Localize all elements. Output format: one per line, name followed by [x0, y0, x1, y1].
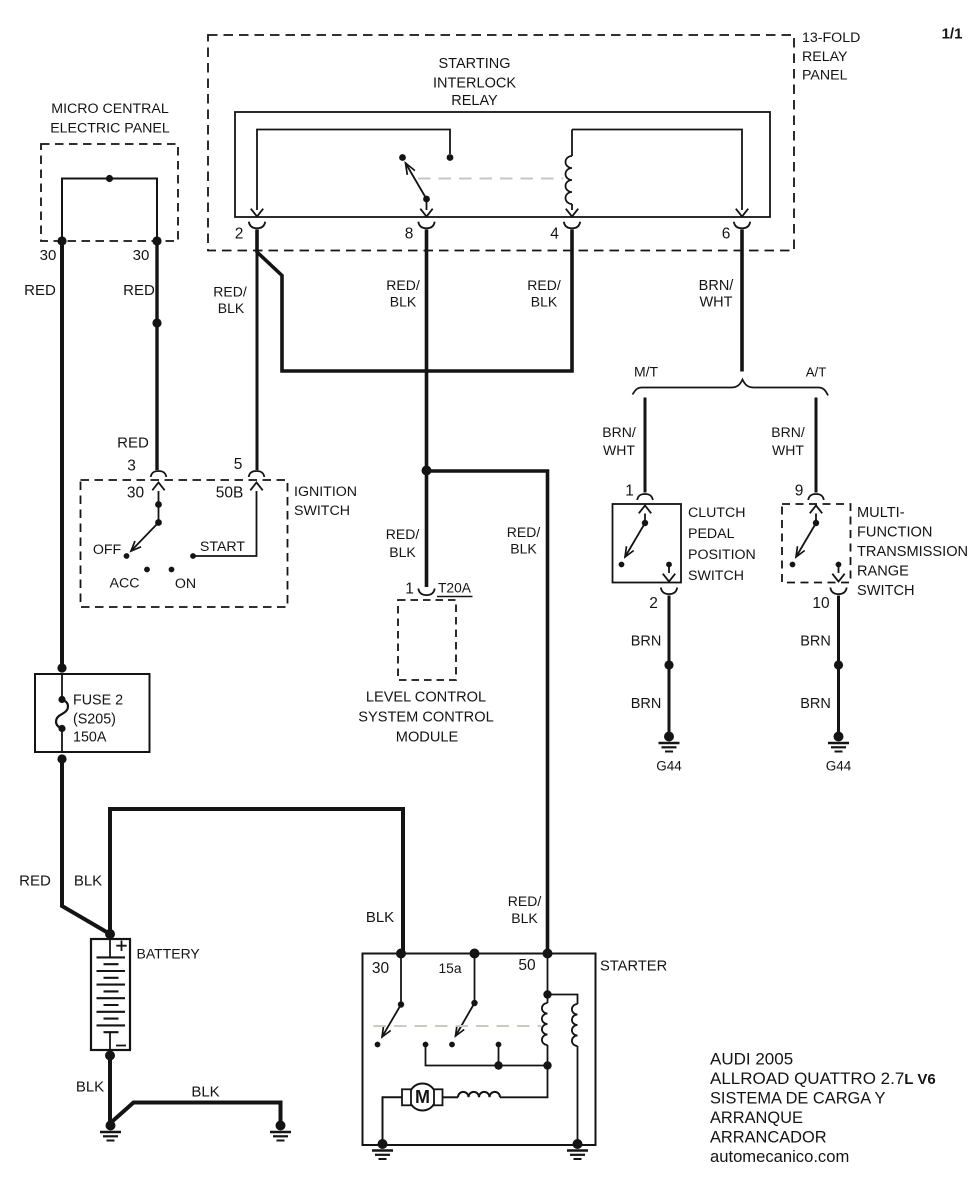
starter motor left lead	[383, 1097, 402, 1144]
svg-text:9: 9	[795, 483, 804, 500]
svg-text:T20A: T20A	[438, 581, 472, 596]
svg-text:PANEL: PANEL	[802, 68, 848, 84]
fuse contact bottom	[58, 725, 65, 732]
junction terminal 30 left	[57, 236, 66, 245]
junction on clutch BRN wire	[664, 660, 673, 669]
ignition OFF contact	[124, 553, 130, 559]
svg-text:WHT: WHT	[603, 442, 635, 458]
svg-text:BLK: BLK	[389, 544, 416, 560]
svg-text:TRANSMISSION: TRANSMISSION	[857, 544, 968, 560]
ignition pin 3 connector	[151, 471, 167, 477]
wire BLK branch to second ground	[111, 1103, 281, 1126]
wire BRN/WHT to clutch switch	[644, 398, 647, 493]
svg-text:BATTERY: BATTERY	[137, 946, 201, 962]
starter switch 1 arm	[382, 1005, 401, 1038]
starter switch 2 contact	[449, 1042, 455, 1048]
svg-text:ELECTRIC PANEL: ELECTRIC PANEL	[50, 121, 170, 137]
starter junction b	[494, 1061, 502, 1069]
starting interlock relay inner box	[235, 112, 770, 217]
svg-text:BRN/: BRN/	[602, 424, 636, 440]
svg-text:FUNCTION: FUNCTION	[857, 525, 932, 541]
clutch contact open	[619, 562, 625, 568]
fuse lead top	[61, 674, 63, 700]
fuse lead bottom	[61, 729, 63, 753]
relay switch arm	[406, 163, 427, 199]
micro central electric panel dashed box	[41, 144, 178, 241]
wire BRN range to ground	[837, 596, 840, 734]
starter switch 1 stem	[400, 954, 402, 1005]
svg-text:1: 1	[625, 483, 634, 500]
junction terminal 30 right	[152, 236, 161, 245]
starter terminal 30 junction	[396, 949, 406, 959]
junction below fuse	[57, 754, 66, 763]
svg-text:2: 2	[649, 595, 658, 612]
svg-text:G44: G44	[656, 759, 682, 774]
wire RED fuse to battery	[62, 757, 110, 934]
svg-text:1/1: 1/1	[942, 26, 963, 43]
starter box	[363, 954, 596, 1146]
clutch pin 1 connector	[637, 494, 653, 500]
starter pull-in coil lead bottom	[547, 1045, 549, 1066]
relay pin 6 arrow	[736, 209, 748, 217]
starter junction 50 coils	[543, 990, 551, 998]
svg-text:POSITION: POSITION	[688, 547, 756, 563]
junction on panel bus	[106, 175, 113, 182]
relay pin 2 connector	[249, 222, 265, 229]
starter ground left	[372, 1139, 393, 1159]
svg-text:AUDI 2005: AUDI 2005	[710, 1050, 793, 1069]
relay arm arrowhead	[406, 163, 415, 175]
junction on pin 8 wire	[422, 466, 432, 476]
svg-text:RELAY: RELAY	[802, 49, 848, 65]
svg-text:ARRANQUE: ARRANQUE	[710, 1109, 803, 1127]
svg-text:STARTER: STARTER	[600, 959, 667, 975]
relay internal wire pin2 to fixed contact	[257, 130, 450, 211]
wire RED from panel to fuse	[60, 239, 64, 668]
starter switch 1 contact	[375, 1042, 381, 1048]
wire inside micro panel (bus)	[62, 179, 157, 242]
clutch pin 1 stem	[644, 514, 646, 524]
svg-text:BRN: BRN	[631, 634, 662, 650]
svg-text:SWITCH: SWITCH	[857, 583, 915, 599]
svg-text:LEVEL CONTROL: LEVEL CONTROL	[366, 690, 486, 706]
relay pin 6 connector	[734, 222, 750, 229]
ignition ON contact	[169, 567, 175, 573]
svg-text:SWITCH: SWITCH	[688, 568, 744, 584]
battery positive junction	[105, 929, 115, 939]
starter motor M	[402, 1084, 443, 1111]
fuse contact top	[58, 696, 65, 703]
ground G44 right	[828, 732, 849, 752]
svg-text:BRN: BRN	[800, 696, 831, 712]
svg-text:G44: G44	[826, 759, 852, 774]
battery minus sign	[116, 1045, 126, 1047]
range contact open	[790, 562, 796, 568]
junction on RED wire	[152, 318, 161, 327]
svg-text:3: 3	[127, 458, 136, 475]
battery negative junction	[105, 1051, 115, 1061]
clutch pin 2 arrow	[663, 574, 675, 582]
svg-text:BLK: BLK	[510, 541, 537, 557]
relay pin 4 connector	[564, 222, 580, 229]
svg-text:8: 8	[405, 226, 414, 243]
svg-text:MODULE: MODULE	[396, 730, 459, 746]
svg-text:SYSTEM CONTROL: SYSTEM CONTROL	[358, 710, 493, 726]
ground at battery	[100, 1121, 121, 1141]
starter switch 2 arm	[456, 1003, 475, 1036]
starter internal wire contacts to coil junction	[426, 1045, 548, 1066]
wire RED/BLK pin2 branch to ignition 50B	[256, 252, 259, 470]
svg-text:RED: RED	[123, 282, 155, 299]
svg-text:RED/: RED/	[508, 893, 542, 909]
fuse 2 box	[35, 674, 150, 752]
wire RED/BLK pin2-pin4 loop	[257, 230, 572, 372]
connector T20A	[418, 589, 434, 596]
starter terminal 50 junction	[543, 949, 553, 959]
level control system control module dashed box	[398, 600, 456, 680]
wire BLK battery to ground	[108, 1056, 112, 1126]
svg-text:M: M	[415, 1087, 430, 1107]
svg-text:13-FOLD: 13-FOLD	[802, 30, 860, 46]
starter ground right	[567, 1139, 588, 1159]
svg-text:RED/: RED/	[386, 277, 420, 293]
svg-text:RED: RED	[19, 873, 51, 890]
svg-text:IGNITION: IGNITION	[294, 484, 357, 500]
range arm arrowhead	[796, 546, 805, 557]
relay armature pivot	[423, 196, 430, 203]
svg-text:MULTI-: MULTI-	[857, 505, 905, 521]
M/T A/T split brace	[633, 380, 829, 396]
svg-text:RANGE: RANGE	[857, 564, 909, 580]
starter hold-in coil	[572, 1004, 578, 1046]
ground G44 left	[659, 732, 680, 752]
fuse element S-curve	[56, 700, 68, 729]
starter switch 2 arrowhead	[456, 1025, 465, 1036]
svg-text:4: 4	[550, 226, 559, 243]
13-fold relay panel dashed box	[208, 35, 794, 251]
relay pin 8 connector	[418, 222, 434, 229]
starter motor right lead	[443, 1096, 459, 1098]
svg-text:MICRO CENTRAL: MICRO CENTRAL	[51, 101, 169, 117]
junction above fuse	[57, 663, 66, 672]
ignition arm arrowhead	[131, 541, 141, 551]
svg-text:RELAY: RELAY	[451, 93, 498, 109]
starter actuation dashed link	[374, 1025, 542, 1027]
svg-text:BLK: BLK	[390, 294, 417, 310]
starter armature coil to junction	[500, 1067, 548, 1097]
svg-text:BLK: BLK	[191, 1084, 219, 1101]
svg-text:ALLROAD QUATTRO 2.7L V6: ALLROAD QUATTRO 2.7L V6	[710, 1069, 936, 1088]
svg-text:CLUTCH: CLUTCH	[688, 505, 746, 521]
svg-text:M/T: M/T	[634, 364, 659, 380]
svg-text:SISTEMA DE CARGA Y: SISTEMA DE CARGA Y	[710, 1090, 886, 1108]
wire BRN clutch to ground	[668, 596, 671, 734]
svg-text:30: 30	[372, 960, 390, 977]
svg-text:SWITCH: SWITCH	[294, 503, 350, 519]
svg-text:BLK: BLK	[511, 910, 538, 926]
relay coil	[566, 156, 573, 204]
range pin 10 stem	[838, 565, 840, 574]
multi-function transmission range switch dashed box	[782, 504, 851, 583]
ground second	[270, 1121, 291, 1141]
ignition pin 5 connector	[249, 471, 265, 477]
starter switch 1 pivot	[398, 1001, 404, 1007]
svg-text:ACC: ACC	[110, 576, 140, 592]
ignition stem node	[155, 501, 162, 508]
starter terminal 15a junction	[470, 949, 480, 959]
battery plates	[97, 957, 126, 1032]
ignition ACC contact	[144, 567, 150, 573]
starter switch 2 stem	[474, 954, 476, 1004]
svg-text:BLK: BLK	[74, 873, 102, 890]
battery box	[91, 939, 130, 1050]
starter 50 lead	[547, 954, 549, 995]
svg-text:BLK: BLK	[218, 300, 245, 316]
svg-text:150A: 150A	[73, 730, 107, 746]
svg-text:WHT: WHT	[772, 442, 804, 458]
svg-text:OFF: OFF	[93, 542, 122, 558]
ignition rotor arm	[131, 523, 159, 552]
battery plus sign	[116, 941, 126, 952]
wire RED/BLK junction to starter 50	[427, 471, 548, 953]
relay coil lead bottom	[571, 204, 573, 210]
svg-text:RED/: RED/	[527, 277, 561, 293]
svg-text:10: 10	[812, 595, 830, 612]
range pivot	[813, 520, 819, 526]
svg-text:15a: 15a	[438, 961, 461, 976]
svg-text:BRN: BRN	[800, 634, 831, 650]
svg-text:automecanico.com: automecanico.com	[710, 1147, 849, 1166]
starter pull-in coil lead	[547, 995, 549, 1004]
starter junction coil bottom	[543, 1061, 551, 1069]
wire RED from panel to ignition switch pin 3	[155, 239, 158, 470]
wire BRN/WHT pin 6 down	[740, 230, 744, 372]
svg-text:6: 6	[722, 226, 731, 243]
clutch pin 2 connector	[661, 588, 677, 595]
svg-text:RED/: RED/	[507, 524, 541, 540]
starter switch 1 arrowhead	[382, 1026, 391, 1037]
starter contact b	[496, 1042, 502, 1048]
ignition pin 5 arrow	[250, 483, 262, 491]
range switch arm	[796, 523, 816, 557]
relay wire pivot to pin 8	[426, 199, 428, 210]
svg-text:START: START	[200, 539, 246, 555]
relay fixed contact (open)	[399, 154, 406, 161]
svg-text:RED/: RED/	[213, 284, 247, 300]
clutch pivot	[642, 520, 648, 526]
svg-text:STARTING: STARTING	[439, 56, 511, 72]
battery top stub	[109, 939, 111, 958]
T20A underline	[437, 596, 473, 598]
ignition START wire to 50B	[193, 491, 257, 556]
svg-text:5: 5	[234, 456, 243, 473]
starter armature coil	[458, 1092, 500, 1097]
starter contact a	[423, 1042, 429, 1048]
ignition pin 3 stem	[158, 491, 160, 504]
wire RED/BLK pin 8 down	[425, 230, 429, 588]
svg-text:BRN/: BRN/	[699, 278, 735, 294]
range switch pin 9 connector	[808, 494, 824, 500]
svg-text:50B: 50B	[216, 485, 244, 502]
ignition switch dashed box	[81, 480, 288, 607]
range pin 10 arrow	[832, 574, 844, 582]
clutch pin 1 arrow	[639, 506, 651, 514]
svg-text:30: 30	[127, 485, 145, 502]
ignition pin 3 arrow	[152, 483, 164, 491]
starter hold-in coil feed	[548, 995, 578, 1005]
svg-text:BLK: BLK	[76, 1079, 104, 1096]
junction on range BRN wire	[834, 660, 843, 669]
svg-text:RED: RED	[24, 282, 56, 299]
svg-text:1: 1	[405, 581, 414, 598]
range pin 10 connector	[830, 588, 846, 595]
relay coil lead top	[571, 130, 573, 157]
relay pin 8 arrow	[420, 209, 432, 217]
svg-text:BRN: BRN	[631, 696, 662, 712]
starter hold-in coil to ground	[577, 1046, 579, 1144]
clutch pedal position switch box	[613, 504, 682, 583]
svg-text:FUSE 2: FUSE 2	[73, 693, 123, 709]
svg-text:BLK: BLK	[366, 909, 394, 926]
svg-text:PEDAL: PEDAL	[688, 526, 735, 542]
svg-text:ARRANCADOR: ARRANCADOR	[710, 1129, 827, 1147]
wire BRN/WHT to range switch	[815, 398, 818, 493]
svg-text:(S205): (S205)	[73, 712, 116, 728]
starter switch 2 pivot	[471, 1000, 477, 1006]
svg-text:30: 30	[133, 247, 150, 264]
svg-text:WHT: WHT	[699, 295, 732, 311]
svg-text:2: 2	[235, 226, 244, 243]
relay internal wire coil to pin 6	[572, 130, 742, 211]
range pin 9 stem	[815, 514, 817, 524]
svg-text:RED: RED	[117, 435, 149, 452]
svg-text:BLK: BLK	[531, 294, 558, 310]
range contact pin 10	[836, 562, 842, 568]
clutch contact pin 2	[666, 562, 672, 568]
ignition rotor pivot	[155, 519, 162, 526]
svg-text:RED/: RED/	[386, 526, 420, 542]
svg-text:ON: ON	[175, 576, 196, 592]
starter internal wire contact b drop	[498, 1045, 500, 1066]
svg-text:INTERLOCK: INTERLOCK	[433, 76, 516, 92]
wire BLK battery to starter 30	[110, 809, 403, 953]
clutch switch arm	[625, 523, 645, 557]
clutch arm arrowhead	[625, 546, 634, 557]
relay pin 4 arrow	[566, 209, 578, 217]
relay fixed contact (wired)	[447, 154, 454, 161]
battery bottom stub	[109, 1032, 111, 1050]
relay actuation dashed link	[418, 178, 563, 180]
svg-text:BRN/: BRN/	[771, 424, 805, 440]
svg-text:50: 50	[518, 957, 536, 974]
range pin 9 arrow	[810, 506, 822, 514]
relay pin 2 arrow	[251, 209, 263, 217]
ignition START contact	[190, 553, 196, 559]
svg-text:A/T: A/T	[806, 365, 827, 380]
clutch pin 2 stem	[668, 565, 670, 574]
svg-text:30: 30	[40, 247, 57, 264]
ignition pivot link	[158, 505, 160, 523]
starter pull-in coil	[542, 1003, 548, 1045]
